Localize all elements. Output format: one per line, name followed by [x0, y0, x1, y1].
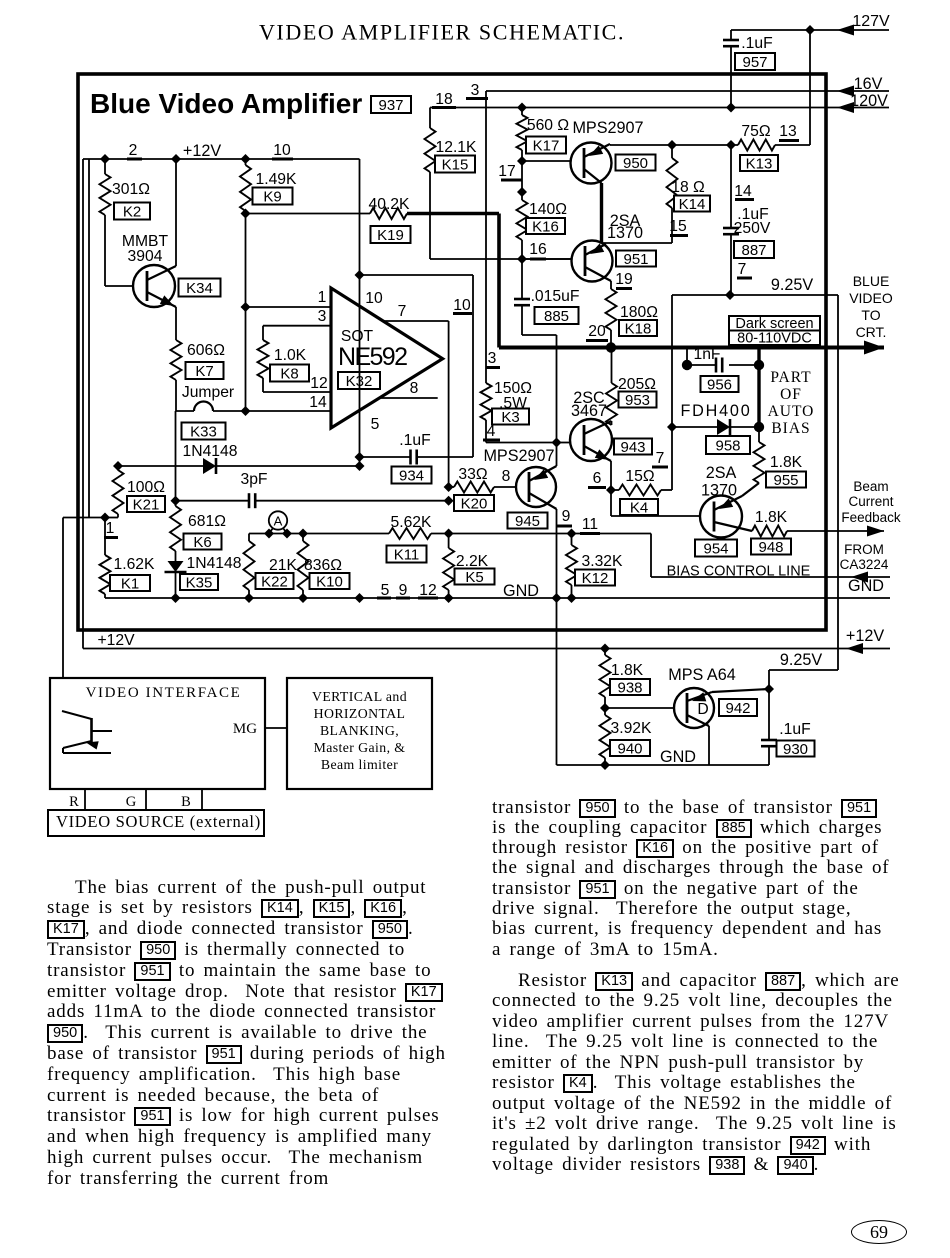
transistor 945 MPS2907 PNP	[516, 467, 556, 507]
label box K4	[620, 499, 658, 515]
wire +12V bottom rail	[83, 648, 890, 650]
label box K14	[674, 196, 710, 212]
svg-text:.015uF: .015uF	[531, 288, 580, 305]
wire 945 collector up to 943 base junction	[556, 443, 558, 467]
wire 955 to 954 collector	[742, 483, 759, 496]
svg-text:180Ω: 180Ω	[620, 304, 658, 321]
node junction K17 top on 120V line	[517, 103, 527, 113]
VIDEO SOURCE external box	[47, 809, 265, 837]
label box K5	[455, 569, 495, 585]
svg-text:140Ω: 140Ω	[529, 201, 567, 218]
resistor 953 205ohm	[611, 348, 613, 384]
svg-text:CRT.: CRT.	[856, 324, 887, 340]
label box 950	[616, 155, 656, 171]
svg-text:80-110VDC: 80-110VDC	[737, 331, 812, 347]
transistor symbol in video interface	[90, 718, 93, 743]
svg-text:945: 945	[515, 513, 540, 530]
arrow thick to CRT	[864, 341, 884, 355]
wire K33 chain down to 3pF line	[175, 411, 177, 501]
wire MG to blanking box	[265, 727, 287, 729]
node junction 2.2K top	[444, 529, 454, 539]
arrow +12V right pointing left	[846, 643, 863, 654]
node junction pin5 ground	[355, 593, 365, 603]
resistor K21 100ohm	[117, 466, 119, 470]
resistor K3 150ohm 0.5W	[481, 383, 492, 420]
wire NE592 pin8 stub	[379, 397, 438, 399]
resistor K22 21K	[248, 534, 250, 542]
node junction 9.25V at cap887 bottom	[725, 290, 735, 300]
svg-text:127V: 127V	[852, 13, 890, 30]
transistor K34 MMBT3904 NPN	[133, 265, 175, 307]
svg-text:G: G	[126, 794, 137, 810]
svg-text:VIDEO AMPLIFIER SCHEMATIC.: VIDEO AMPLIFIER SCHEMATIC.	[259, 20, 625, 45]
wire G tick	[145, 789, 147, 809]
resistor K6 681ohm	[175, 501, 177, 506]
label box 954	[695, 540, 737, 557]
node junction 938 top on +12V rail	[600, 644, 610, 654]
svg-text:K15: K15	[442, 156, 469, 173]
resistor K17 560ohm	[521, 108, 523, 116]
wire pin10 through op-amp to pin5 and ground	[359, 275, 361, 466]
capacitor 3pF plates	[248, 493, 251, 508]
svg-text:3: 3	[488, 350, 497, 367]
svg-text:17: 17	[498, 163, 515, 180]
node junction 945 emitter ground	[552, 593, 562, 603]
label box K21	[127, 496, 165, 512]
node junction 1nF right	[754, 360, 764, 370]
node junction pin14 line	[241, 406, 251, 416]
node junction 1nF left	[682, 360, 692, 370]
node junction K1 ground	[171, 593, 181, 603]
svg-text:14: 14	[309, 394, 327, 411]
label box K22	[256, 573, 294, 589]
wire K34 emitter down	[175, 307, 177, 340]
arrow beam current feedback pointing right	[867, 526, 884, 537]
label box K7	[186, 362, 224, 379]
resistor K15 12.1K	[429, 108, 431, 129]
svg-text:930: 930	[783, 741, 808, 758]
wire B tick	[201, 789, 203, 809]
wire 943 base junction to circle	[557, 442, 571, 444]
node A test point legs	[269, 528, 273, 534]
wire 954 base line	[611, 515, 700, 517]
wire 9.25V corner to 942 collector	[769, 669, 838, 671]
capacitor 3pF line	[176, 500, 250, 502]
wire K2 to Q K34 base	[104, 215, 106, 286]
svg-text:.1uF: .1uF	[741, 35, 772, 52]
node junction FDH400 left	[667, 422, 677, 432]
svg-text:K3: K3	[501, 409, 519, 426]
wire K14 to 15 corner	[671, 208, 673, 243]
jumper K33 arc	[194, 402, 213, 412]
svg-text:1nF: 1nF	[693, 346, 720, 363]
wire 950 emitter to 145 line	[609, 144, 611, 145]
wire 9.25V left drop x=672 to FDH400 line	[671, 295, 673, 427]
svg-text:1.62K: 1.62K	[114, 556, 156, 573]
svg-text:MPS2907: MPS2907	[483, 447, 554, 465]
svg-text:16: 16	[529, 241, 547, 258]
wire bias control drop	[650, 534, 652, 578]
svg-text:FDH400: FDH400	[680, 402, 751, 420]
resistor K14 18ohm	[671, 145, 673, 158]
node junction diode line right	[355, 461, 365, 471]
capacitor 885 .015uF coupling	[521, 259, 523, 299]
node junction 127V / K13 feed	[805, 25, 815, 35]
svg-text:8: 8	[410, 380, 419, 397]
svg-text:K7: K7	[195, 363, 213, 380]
wire K4 right up to FDH400 line	[671, 427, 673, 490]
svg-text:13: 13	[779, 123, 797, 140]
node junction 3.32K top	[567, 529, 577, 539]
resistor 940 3.92K	[604, 708, 606, 715]
svg-text:885: 885	[544, 308, 569, 325]
label box K17	[526, 137, 566, 154]
svg-text:K19: K19	[377, 227, 404, 244]
svg-text:5.62K: 5.62K	[391, 514, 433, 531]
svg-text:BIAS: BIAS	[771, 420, 810, 437]
svg-text:1: 1	[106, 520, 115, 537]
resistor 955 1.8K	[758, 427, 760, 442]
capacitor 887 .1uF 250V	[730, 145, 732, 228]
node junction K36/K21	[113, 461, 123, 471]
svg-text:954: 954	[703, 540, 728, 557]
arrow 127V pointing left	[837, 25, 854, 36]
resistor 948 1.8K on 954 emitter	[752, 526, 787, 537]
svg-text:A: A	[274, 514, 283, 529]
label box 956	[701, 376, 739, 392]
svg-text:VIDEO: VIDEO	[849, 290, 893, 306]
node junction K9 bottom / 40.2K line	[241, 209, 251, 219]
capacitor 934 plates	[409, 450, 412, 465]
wire +12V rail corner down to NE592 pin10	[359, 159, 361, 275]
wire K15 down to 16 base line	[429, 172, 431, 259]
wire NE592 pin1 line	[246, 306, 332, 308]
svg-text:1370: 1370	[607, 224, 643, 242]
svg-text:D: D	[697, 701, 708, 718]
node junction 951 emitter output	[606, 342, 616, 352]
svg-text:1: 1	[318, 289, 327, 306]
svg-text:6: 6	[593, 470, 602, 487]
VERTICAL HORIZONTAL BLANKING box	[287, 678, 432, 789]
svg-text:.1uF: .1uF	[399, 432, 430, 449]
wire thick 40.2K output to video line	[407, 212, 499, 216]
node junction K12 ground	[567, 593, 577, 603]
svg-text:957: 957	[742, 54, 767, 71]
svg-text:5: 5	[381, 582, 390, 599]
node junction 33ohm left	[444, 482, 454, 492]
main enclosure box of Blue Video Amplifier	[78, 74, 826, 630]
wire 127V supply line	[731, 29, 889, 31]
svg-text:10: 10	[453, 297, 471, 314]
svg-text:11: 11	[582, 516, 598, 533]
svg-text:K21: K21	[133, 496, 160, 513]
node junction 942 collector	[764, 684, 774, 694]
svg-text:AUTO: AUTO	[768, 403, 815, 420]
node junction pin10 net	[355, 270, 365, 280]
svg-text:+12V: +12V	[97, 632, 135, 649]
resistor K1 1.62K	[104, 518, 106, 556]
capacitor C957 .1uF top lead	[730, 30, 732, 40]
svg-text:K20: K20	[461, 495, 488, 512]
label box K3	[492, 409, 529, 425]
node junction FDH400 right	[754, 422, 764, 432]
wire thick video output rail to CRT	[499, 346, 884, 350]
svg-text:938: 938	[617, 679, 642, 696]
wire continues down to pin14 line	[245, 307, 247, 411]
node junction K5 ground	[444, 593, 454, 603]
node junction K9 top on +12V rail	[241, 154, 251, 164]
svg-text:Blue Video Amplifier: Blue Video Amplifier	[90, 88, 362, 119]
node junction node1 feedback	[100, 513, 110, 523]
svg-text:BLUE: BLUE	[853, 273, 890, 289]
capacitor 956 1nF	[687, 364, 716, 366]
resistor K13 75ohm	[738, 140, 775, 151]
svg-text:FROM: FROM	[844, 542, 884, 557]
svg-text:3904: 3904	[128, 248, 163, 265]
node junction A right	[282, 529, 292, 539]
resistor K12 3.32K	[571, 534, 573, 546]
svg-text:2SA: 2SA	[706, 464, 737, 482]
wire NE592 pin12 line	[263, 391, 331, 393]
label box 887	[734, 241, 774, 258]
svg-text:Jumper: Jumper	[182, 384, 234, 401]
svg-text:K17: K17	[533, 137, 560, 154]
resistor K5 2.2K	[448, 534, 450, 549]
svg-text:953: 953	[625, 392, 650, 409]
svg-text:12: 12	[310, 375, 327, 392]
wire 9.25V right drop x=838	[837, 295, 839, 670]
svg-text:940: 940	[617, 740, 642, 757]
svg-text:205Ω: 205Ω	[618, 376, 656, 393]
op-amp K32 NE592 triangle	[331, 288, 443, 428]
wire R tick	[84, 789, 86, 809]
svg-text:15Ω: 15Ω	[625, 468, 654, 485]
svg-text:3pF: 3pF	[240, 471, 267, 488]
svg-text:B: B	[181, 794, 191, 810]
wire 943 emitter to 954 base	[610, 490, 612, 516]
svg-text:8: 8	[502, 468, 511, 485]
label box K13	[740, 155, 778, 171]
wire K34 collector to +12V rail	[175, 159, 177, 266]
svg-text:MG: MG	[233, 721, 257, 737]
svg-text:1.8K: 1.8K	[770, 454, 803, 471]
node junction 940 bottom	[600, 760, 610, 770]
svg-text:MPS2907: MPS2907	[572, 119, 643, 137]
label box K19	[371, 226, 411, 243]
label box 943	[614, 439, 652, 455]
wire 16 base line to transistors	[430, 258, 572, 260]
label box K16	[526, 218, 565, 234]
resistor K19 40.2K	[370, 208, 407, 219]
label box 938	[610, 679, 650, 695]
svg-text:301Ω: 301Ω	[112, 181, 150, 198]
label box 885	[535, 307, 579, 324]
node A circle	[269, 511, 287, 529]
resistor K2 301ohm	[104, 159, 106, 174]
svg-text:1N4148: 1N4148	[183, 443, 238, 460]
svg-text:21K: 21K	[269, 557, 297, 574]
svg-text:1N4148: 1N4148	[187, 555, 242, 572]
svg-text:4: 4	[487, 423, 496, 440]
svg-text:3.92K: 3.92K	[611, 720, 653, 737]
wire 951 base	[522, 258, 572, 260]
wire 943 collector to 205ohm	[611, 421, 613, 425]
arrow from CA3224 pointing left	[851, 572, 868, 583]
svg-text:19: 19	[615, 271, 632, 288]
wire K36 diode line	[118, 465, 203, 467]
wire ground drop from main gnd rail	[556, 598, 558, 765]
label box K18	[619, 320, 657, 336]
wire K7 to jumper line	[175, 380, 177, 411]
svg-text:Current: Current	[848, 494, 893, 509]
svg-text:18: 18	[435, 91, 453, 108]
svg-text:K12: K12	[582, 570, 609, 587]
svg-text:K16: K16	[532, 218, 559, 235]
svg-text:14: 14	[734, 183, 752, 200]
node junction 836ohm top	[298, 529, 308, 539]
svg-text:10: 10	[273, 142, 291, 159]
label box K20	[454, 495, 494, 511]
wire 945 emitter down	[556, 509, 558, 598]
wire stub rail to 1nF line	[686, 348, 688, 366]
VIDEO INTERFACE box	[50, 678, 265, 789]
svg-text:HORIZONTAL: HORIZONTAL	[314, 706, 406, 721]
svg-text:K9: K9	[263, 188, 281, 205]
svg-text:943: 943	[620, 439, 645, 456]
node junction K2 top	[100, 154, 110, 164]
svg-text:7: 7	[398, 303, 407, 320]
wire K9 bottom to NE592 pin1	[245, 211, 247, 307]
svg-text:20: 20	[588, 323, 606, 340]
label box K1	[110, 575, 150, 591]
node junction A left	[264, 529, 274, 539]
svg-text:1.8K: 1.8K	[611, 662, 644, 679]
label box K8	[270, 365, 309, 382]
capacitor 934 .1uF line	[360, 456, 411, 458]
diode K36 1N4148	[203, 458, 216, 474]
capacitor C957 bottom lead to 120V line	[730, 46, 732, 107]
svg-text:K2: K2	[123, 203, 141, 220]
svg-text:958: 958	[715, 437, 740, 454]
svg-text:956: 956	[707, 376, 732, 393]
resistor K11 5.62K	[389, 528, 431, 539]
resistor K18 180ohm on 951 emitter	[610, 281, 612, 289]
wire pin7 drop to 33-ohm	[448, 321, 450, 487]
resistor K10 836ohm	[302, 534, 304, 542]
svg-text:5: 5	[371, 416, 380, 433]
svg-text:Feedback: Feedback	[841, 510, 901, 525]
wire 15 line to 951 collector	[602, 242, 673, 244]
arrow 120V pointing left	[837, 102, 854, 113]
svg-text:12.1K: 12.1K	[436, 139, 478, 156]
svg-text:937: 937	[378, 97, 403, 114]
wire mid bias rail right	[431, 533, 651, 535]
svg-text:951: 951	[623, 251, 648, 268]
svg-text:9: 9	[562, 508, 571, 525]
svg-text:887: 887	[741, 242, 766, 259]
svg-text:9.25V: 9.25V	[780, 651, 823, 669]
svg-text:GND: GND	[848, 577, 884, 595]
transistor 943 2SC3467 NPN	[570, 419, 612, 461]
node junction 943 base	[552, 438, 562, 448]
svg-text:120V: 120V	[850, 92, 888, 110]
svg-text:250V: 250V	[734, 220, 771, 237]
label box 934	[392, 467, 432, 484]
resistor K20 33ohm	[449, 486, 454, 488]
svg-text:BIAS CONTROL LINE: BIAS CONTROL LINE	[667, 564, 811, 580]
svg-text:VERTICAL and: VERTICAL and	[312, 689, 407, 704]
svg-text:CA3224: CA3224	[840, 557, 889, 572]
svg-text:K6: K6	[193, 534, 211, 551]
svg-text:40.2K: 40.2K	[369, 196, 411, 213]
svg-text:K22: K22	[261, 573, 288, 590]
svg-text:VIDEO INTERFACE: VIDEO INTERFACE	[86, 685, 242, 701]
wire thick 950 collector to 951 collector	[600, 183, 603, 243]
svg-text:942: 942	[725, 700, 750, 717]
wire NE592 pin3 line	[263, 325, 331, 327]
label box K2	[114, 203, 150, 220]
svg-text:16V: 16V	[854, 75, 883, 93]
svg-text:K14: K14	[679, 196, 706, 213]
node junction below 17 tick	[517, 187, 527, 197]
wire feedback drop from +12V rail area	[88, 159, 90, 518]
wire pin10 net across top	[360, 274, 474, 276]
label box 942	[719, 699, 757, 716]
wire thick auto-bias drop	[757, 348, 760, 428]
svg-text:+12V: +12V	[183, 142, 221, 160]
wire 40.2K left lead	[246, 213, 371, 215]
svg-text:BLANKING,: BLANKING,	[320, 723, 399, 738]
node junction 942 base	[600, 703, 610, 713]
wire 16V supply line	[486, 90, 889, 92]
label box 930	[777, 741, 815, 757]
svg-text:Beam: Beam	[853, 479, 888, 494]
transistor 942 MPS A64 darlington	[674, 688, 714, 728]
label box 957	[735, 53, 775, 70]
svg-text:1.49K: 1.49K	[256, 171, 298, 188]
svg-text:15: 15	[669, 218, 687, 235]
node junction K10 ground	[298, 593, 308, 603]
svg-text:1.8K: 1.8K	[755, 509, 788, 526]
wire 942 base line	[604, 697, 606, 708]
resistor K16 140ohm	[521, 161, 523, 200]
resistor K8 1.0K between pin3 and pin12	[262, 326, 264, 340]
svg-text:75Ω: 75Ω	[741, 123, 770, 140]
wire K35 to ground	[175, 572, 177, 598]
label box 945	[508, 513, 548, 529]
svg-text:606Ω: 606Ω	[187, 342, 225, 359]
wire 145 line from 950 to K13	[610, 144, 738, 146]
svg-text:33Ω: 33Ω	[458, 466, 487, 483]
svg-text:K5: K5	[465, 569, 483, 586]
label box K6	[184, 534, 222, 550]
transistor 950 MPS2907 PNP	[571, 143, 612, 184]
label box 937	[371, 96, 411, 113]
svg-text:K13: K13	[746, 155, 773, 172]
label box 955	[766, 472, 806, 488]
wire +12V left drop to bottom rail	[82, 159, 84, 649]
svg-text:GND: GND	[660, 748, 696, 766]
wire A64 local ground rail	[557, 764, 770, 766]
label box K10	[310, 573, 350, 589]
label box 951	[616, 251, 656, 267]
label box 953	[619, 392, 657, 408]
label box K32	[338, 372, 380, 389]
svg-text:K18: K18	[625, 320, 652, 337]
wire 943 emitter down to K4	[610, 461, 612, 490]
svg-text:934: 934	[399, 467, 424, 484]
wire jumper line to NE592 pin14	[176, 410, 194, 412]
